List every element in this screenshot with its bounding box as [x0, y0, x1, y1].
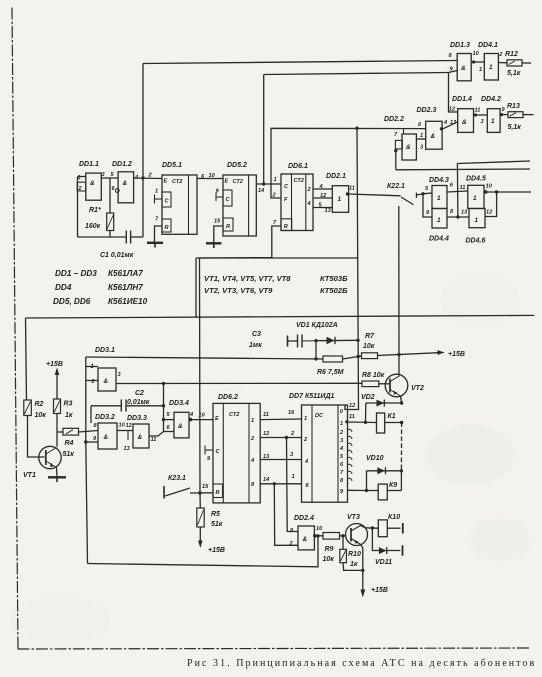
- wire +15V rail y358: [86, 353, 436, 359]
- svg-text:1: 1: [340, 421, 343, 427]
- wire R4 to DD3.2 input: [79, 431, 99, 433]
- wire C3 node to VD1 to x358 vertical: [316, 339, 358, 341]
- wire DD1.1 out to DD1.2 in: [101, 177, 118, 179]
- svg-text:+15В: +15В: [448, 351, 465, 358]
- svg-text:R3: R3: [64, 401, 73, 408]
- svg-text:1: 1: [489, 64, 493, 71]
- wire long vertical x200 reset net: [199, 262, 202, 508]
- wire DD5.2 C stub open tick: [216, 193, 223, 202]
- wire DD3.2 pin9 from x85.5 vertical: [86, 441, 98, 443]
- svg-text:&: &: [462, 119, 467, 126]
- svg-text:5,1к: 5,1к: [508, 124, 522, 131]
- svg-text:1: 1: [437, 195, 441, 202]
- wire DD5.1 out to DD5.2: [197, 178, 223, 180]
- gate DD2.4: [289, 515, 324, 550]
- node junction dot DD1.2 output at x143: [141, 176, 144, 179]
- wire DD1.1 input from left vertical: [78, 176, 86, 178]
- wire y128 net from DD6.1 F pin up and right to DD2.3: [271, 128, 426, 198]
- wire R2 to VT1 base: [28, 416, 45, 458]
- svg-text:1: 1: [437, 217, 441, 224]
- gate DD2.3: [417, 107, 443, 149]
- wire DD4.3 out to DD4.5 in: [447, 191, 468, 192]
- node dot pin8 wire with drop to DD2.4: [273, 482, 276, 485]
- wire DD3.1 output long line to R8: [116, 382, 362, 384]
- svg-text:DD1.3: DD1.3: [450, 42, 470, 49]
- svg-text:КТ502Б: КТ502Б: [320, 286, 348, 295]
- node dot pin2 wire with drop to DD2.4: [285, 436, 288, 439]
- wire bus2 drop at x263.7 to DD6.1 clock node: [263, 75, 265, 185]
- svg-text:DD4.3: DD4.3: [429, 177, 449, 184]
- svg-text:К9: К9: [389, 482, 397, 489]
- resistor R12 5,1к: [505, 51, 522, 77]
- svg-text:DD3.2: DD3.2: [95, 414, 115, 421]
- svg-text:1мк: 1мк: [249, 342, 262, 349]
- svg-text:R8 10к: R8 10к: [362, 372, 385, 379]
- resistor R10 1к: [340, 536, 363, 571]
- svg-text:13: 13: [263, 454, 270, 460]
- resistor R5 51к: [197, 508, 223, 528]
- svg-text:&: &: [138, 434, 143, 441]
- resistor R9 10к: [323, 533, 340, 564]
- svg-text:160к: 160к: [85, 223, 101, 230]
- relay K1: [377, 413, 396, 433]
- gate DD1.3: [449, 42, 480, 81]
- frame border bottom dash-dot: [18, 648, 530, 649]
- svg-text:DD3.1: DD3.1: [95, 347, 115, 354]
- svg-text:К561ЛН7: К561ЛН7: [108, 283, 143, 292]
- svg-text:Е: Е: [225, 179, 229, 185]
- svg-text:DD5.2: DD5.2: [227, 162, 247, 169]
- svg-text:1: 1: [491, 118, 495, 125]
- counter DD6.2: [213, 394, 260, 503]
- wire bus2 into DD1.3 pin 9: [449, 71, 458, 73]
- wire DD2.2 second input drop to y170 line: [395, 149, 397, 170]
- svg-text:К23.1: К23.1: [168, 475, 186, 482]
- svg-text:R10: R10: [348, 551, 361, 558]
- svg-text:R5: R5: [211, 511, 220, 518]
- svg-text:10: 10: [473, 51, 480, 57]
- wire top bus1: [143, 61, 457, 64]
- svg-text:13: 13: [461, 210, 468, 216]
- inverter DD4.1: [478, 42, 503, 80]
- label +15V right arrow: [436, 350, 465, 358]
- node junction dot DD5.2 carry at x263.7: [262, 182, 265, 185]
- svg-text:1: 1: [420, 133, 423, 139]
- svg-text:13: 13: [325, 208, 332, 214]
- svg-text:DD7 К511ИД1: DD7 К511ИД1: [289, 393, 335, 400]
- svg-text:12: 12: [320, 193, 327, 199]
- wire K1 right to x401.6: [385, 422, 402, 424]
- wire DD3.4 inputs: [164, 420, 175, 432]
- svg-text:F: F: [284, 197, 288, 203]
- svg-text:1: 1: [292, 474, 295, 480]
- gate DD2.1: [326, 173, 355, 212]
- relay K10: [378, 514, 403, 537]
- svg-text:12: 12: [449, 107, 456, 113]
- wire DD1.2 out to DD5.1: [134, 177, 162, 180]
- svg-text:12: 12: [126, 423, 133, 429]
- svg-text:VD1 КД102А: VD1 КД102А: [296, 322, 338, 329]
- svg-text:VD10: VD10: [366, 455, 384, 462]
- resistor R1 160к: [85, 178, 114, 237]
- gate DD2.2: [384, 116, 423, 160]
- counter DD5.2 (К561ИЕ10): [214, 162, 256, 236]
- wire DD7 out9 to K9 row: [348, 489, 367, 491]
- svg-text:51к: 51к: [211, 521, 223, 528]
- wire R3 to R4 and VT1 collector: [56, 414, 58, 447]
- wire feedback vertical x163.5: [163, 383, 165, 431]
- wire long left vertical x85.5 down to bottom wire: [86, 381, 88, 564]
- wire DD2.4 out to R9: [314, 535, 323, 537]
- resistor R2 10к: [24, 400, 46, 419]
- svg-text:R4: R4: [65, 440, 74, 447]
- diode VD2: [361, 394, 402, 407]
- svg-text:DD3.4: DD3.4: [169, 400, 189, 407]
- svg-text:К22.1: К22.1: [387, 183, 405, 190]
- wire VT3 emitter down to +15V: [361, 545, 363, 584]
- svg-text:0,01мк: 0,01мк: [127, 399, 150, 406]
- wire VT1 emitter to ground: [56, 468, 59, 478]
- svg-text:К561ИЕ10: К561ИЕ10: [108, 297, 148, 306]
- wire long vertical x358 from y128 line down to DD7 pin12: [345, 128, 359, 410]
- resistor R6 7,5М: [317, 356, 344, 376]
- svg-text:1: 1: [338, 196, 342, 203]
- gate DD3.4: [167, 400, 195, 438]
- wire bus2: [264, 73, 449, 75]
- svg-text:VT2: VT2: [411, 385, 424, 392]
- wire line y161 from x457 corner to right edge: [457, 161, 530, 164]
- wire DD5.2 carry pin14 to DD6.1 C: [256, 183, 281, 185]
- svg-text:DD4.1: DD4.1: [478, 42, 498, 49]
- svg-text:DD5, DD6: DD5, DD6: [53, 297, 91, 306]
- svg-text:VT2, VT3, VT6, VT9: VT2, VT3, VT6, VT9: [204, 286, 273, 295]
- resistor R3 1к: [54, 399, 73, 419]
- svg-text:КТ503Б: КТ503Б: [320, 274, 348, 283]
- svg-text:СТ2: СТ2: [229, 412, 240, 418]
- wire left drop from y317 to R2: [26, 318, 27, 400]
- diode VD1 КД102А: [296, 322, 338, 344]
- switch K22.1: [387, 183, 423, 217]
- svg-text:51к: 51к: [63, 451, 75, 458]
- svg-text:11: 11: [349, 186, 355, 192]
- DD7 unconnected output stub hooks: [348, 429, 353, 481]
- inverter DD4.3: [425, 177, 454, 209]
- label +15V up arrow over R3: [46, 361, 63, 399]
- wire DD2.2 out to DD2.3 pin3: [416, 138, 425, 140]
- svg-text:12: 12: [349, 403, 356, 409]
- svg-text:1: 1: [479, 67, 482, 73]
- svg-text:&: &: [178, 423, 183, 430]
- svg-text:DD2.3: DD2.3: [417, 107, 437, 114]
- svg-text:&: &: [431, 133, 436, 140]
- wire DD4.1 out to R12: [498, 62, 507, 64]
- svg-text:VT1, VT4, VT5, VT7, VT8: VT1, VT4, VT5, VT7, VT8: [204, 274, 291, 283]
- diode VD11: [372, 528, 402, 566]
- svg-text:1к: 1к: [65, 412, 73, 419]
- svg-text:R2: R2: [35, 401, 44, 408]
- svg-text:DD4.5: DD4.5: [466, 176, 486, 183]
- svg-text:+15В: +15В: [371, 587, 388, 594]
- wire DD5.1 C stub open tick: [155, 195, 163, 204]
- wire DD6.1 outputs to DD2.1 inputs: [313, 189, 332, 208]
- svg-text:10: 10: [316, 526, 323, 532]
- svg-text:VT3: VT3: [347, 514, 360, 521]
- switch K23.1: [164, 475, 213, 499]
- wire VD10 left node down to K9 wire: [366, 471, 368, 491]
- svg-text:1: 1: [251, 418, 254, 424]
- wire R13 to right edge: [523, 114, 534, 116]
- wire DD2.1 output to K22.1: [349, 194, 401, 196]
- gate DD3.3: [127, 415, 156, 448]
- wire bottom long wire to R9 node: [88, 536, 319, 567]
- wire DD1.4 out to DD4.2: [474, 114, 488, 116]
- svg-text:DC: DC: [315, 413, 324, 419]
- svg-text:VT1: VT1: [23, 472, 36, 479]
- svg-text:VD11: VD11: [375, 559, 392, 566]
- inverter DD4.5: [460, 176, 493, 209]
- transistor VT3: [346, 514, 368, 546]
- svg-text:1: 1: [473, 195, 477, 202]
- transistor VT1: [23, 446, 61, 479]
- capacitor C2 0,01мк: [91, 390, 164, 423]
- svg-text:VD2: VD2: [361, 394, 375, 401]
- ground for DD5.2: [206, 243, 222, 248]
- svg-text:DD4.6: DD4.6: [466, 238, 486, 245]
- wire C3/VD1 node drop to R6 rail: [315, 341, 317, 359]
- svg-text:&: &: [90, 180, 95, 187]
- gate DD1.2 (К561ЛА7): [111, 161, 140, 203]
- svg-text:10к: 10к: [363, 343, 375, 350]
- svg-text:&: &: [104, 378, 109, 385]
- wire DD3.4 out to DD6.2 E: [189, 419, 213, 421]
- svg-text:К1: К1: [388, 413, 396, 420]
- svg-text:DD5.1: DD5.1: [162, 162, 182, 169]
- svg-text:11: 11: [349, 414, 355, 420]
- wire DD6.2 outputs to DD7 inputs: [260, 419, 301, 484]
- svg-text:15: 15: [202, 484, 209, 490]
- svg-text:&: &: [461, 65, 466, 72]
- svg-text:С3: С3: [252, 331, 261, 338]
- wire VT2 emitter to VD2 node: [401, 396, 402, 403]
- wire DD2.3 out to DD1.4 pin13: [443, 122, 458, 129]
- wire long horizontal y317: [26, 315, 535, 318]
- gate DD1.4: [443, 96, 480, 132]
- wire DD5.1 R to ground: [155, 226, 163, 243]
- svg-text:R: R: [165, 225, 169, 231]
- svg-text:DD1.1: DD1.1: [79, 161, 99, 168]
- svg-text:+15В: +15В: [208, 547, 225, 554]
- svg-text:1: 1: [475, 217, 479, 224]
- svg-text:&: &: [104, 434, 109, 441]
- wire DD3.3 out to x163.5 node: [149, 432, 164, 437]
- resistor R8 10к: [362, 372, 385, 387]
- svg-text:СТ2: СТ2: [294, 178, 305, 184]
- svg-text:12: 12: [486, 210, 493, 216]
- svg-text:R9: R9: [325, 546, 334, 553]
- wire dashed link x401.6 down to VD10 row: [400, 423, 402, 472]
- wire DD7 out1 to K1 row: [348, 421, 377, 424]
- svg-text:Рис 31. Принципиальная схема А: Рис 31. Принципиальная схема АТС на деся…: [187, 658, 536, 669]
- wire K22.1 common vertical x399 down to +15V rail and VT2: [398, 217, 400, 376]
- svg-text:К10: К10: [388, 514, 400, 521]
- diode VD10: [366, 455, 401, 474]
- frame border left dash-dot: [12, 8, 18, 648]
- wire DD6.1 R pin7 loop down-left to x199 vertical: [200, 226, 282, 262]
- svg-text:15: 15: [214, 219, 221, 225]
- capacitor C1 0,01мк: [100, 231, 143, 260]
- svg-text:СТ2: СТ2: [172, 179, 183, 185]
- svg-text:DD1 – DD3: DD1 – DD3: [55, 269, 97, 278]
- svg-text:DD2.2: DD2.2: [384, 116, 404, 123]
- label +15V down arrow under R5: [198, 527, 225, 554]
- svg-text:11: 11: [151, 437, 157, 443]
- svg-text:1к: 1к: [350, 561, 358, 568]
- svg-text:R7: R7: [365, 333, 375, 340]
- wire VT3 collector to K10: [365, 527, 378, 529]
- gate DD3.2: [93, 414, 117, 449]
- svg-text:1: 1: [155, 189, 158, 195]
- svg-text:С1 0,01мк: С1 0,01мк: [100, 252, 134, 259]
- label +15V down arrow under VT3: [360, 583, 388, 598]
- svg-text:R: R: [284, 224, 288, 230]
- svg-text:DD1.4: DD1.4: [452, 96, 472, 103]
- svg-text:10: 10: [486, 184, 493, 190]
- wire line y170 to right edge: [396, 168, 530, 171]
- svg-text:&: &: [303, 536, 308, 543]
- counter DD6.1 (К561ИЕ10): [272, 163, 314, 231]
- svg-text:11: 11: [475, 108, 481, 114]
- wire bottom feedback y237: [78, 236, 126, 238]
- svg-text:DD4: DD4: [55, 283, 72, 292]
- wire DD4.5 out line to right edge: [484, 191, 531, 193]
- wire vertical x448.5 bus2 to DD1.4 pin12: [449, 73, 458, 113]
- svg-text:5,1к: 5,1к: [507, 70, 521, 77]
- svg-text:16: 16: [288, 410, 295, 416]
- wire VD2 node down to out1 wire: [365, 403, 367, 422]
- svg-text:DD4.4: DD4.4: [429, 236, 449, 243]
- decoder DD7 К511ИД1: [289, 393, 348, 502]
- relay K9: [367, 471, 402, 500]
- parts list text DD1-DD6: [53, 269, 148, 306]
- svg-text:+15В: +15В: [46, 361, 63, 368]
- svg-text:1: 1: [304, 416, 307, 422]
- svg-text:10: 10: [209, 173, 216, 179]
- svg-text:&: &: [406, 144, 411, 151]
- resistor R13 5,1к: [507, 103, 523, 131]
- svg-text:DD2.1: DD2.1: [326, 173, 346, 180]
- gate DD3.1: [91, 347, 122, 391]
- wire DD4.2 out to R13: [500, 114, 508, 116]
- ground for VT1: [48, 477, 66, 482]
- wire R9 to VT3 base: [340, 535, 346, 537]
- resistor R4 51к: [63, 428, 79, 458]
- wire DD4.4 out to DD4.6 in with x458 tap: [447, 216, 469, 218]
- wire DD3.2 out to DD3.3: [117, 430, 133, 432]
- svg-text:DD6.1: DD6.1: [288, 163, 308, 170]
- wire vertical x457.4 down to lower gate row: [456, 164, 459, 218]
- svg-text:10к: 10к: [323, 556, 335, 563]
- wire left feedback vertical x77.5: [77, 177, 79, 238]
- svg-text:10к: 10к: [35, 412, 47, 419]
- transistor VT2: [379, 374, 424, 397]
- svg-text:СТ2: СТ2: [233, 179, 244, 185]
- svg-text:R: R: [216, 490, 220, 496]
- transistor types note box: [196, 258, 358, 317]
- svg-text:DD2.4: DD2.4: [294, 515, 314, 522]
- wire DD6.2 C stub open tick: [205, 446, 213, 455]
- wire K22.1 node to DD4.3/DD4.4 inputs: [423, 193, 432, 217]
- resistor R7 10к: [362, 333, 378, 359]
- svg-text:14: 14: [263, 477, 270, 483]
- wire DD3.1 inputs from +15V rail end: [86, 357, 98, 381]
- svg-text:14: 14: [258, 188, 265, 194]
- wire bus1 left drop to DD1.2 output node: [142, 64, 144, 238]
- svg-text:&: &: [123, 180, 128, 187]
- svg-text:11: 11: [460, 185, 466, 191]
- svg-text:Е: Е: [215, 416, 219, 422]
- inverter DD4.6: [461, 209, 493, 245]
- svg-text:К561ЛА7: К561ЛА7: [108, 269, 143, 278]
- wire DD5.2 R to ground: [214, 226, 223, 243]
- svg-text:R12: R12: [505, 51, 518, 58]
- capacitor C3 1мк with line terminal: [249, 331, 316, 349]
- wire R12 to right edge: [522, 62, 531, 64]
- wire DD4.6 out loop up to output net: [485, 192, 497, 217]
- svg-text:R1*: R1*: [89, 207, 101, 214]
- svg-text:11: 11: [263, 412, 269, 418]
- svg-text:DD3.3: DD3.3: [127, 415, 147, 422]
- svg-text:DD4.2: DD4.2: [481, 96, 501, 103]
- gate DD1.1 (К561ЛА7): [77, 161, 105, 200]
- inverter DD4.2: [481, 96, 506, 132]
- svg-text:С2: С2: [135, 390, 144, 397]
- svg-text:Е: Е: [164, 179, 168, 185]
- svg-text:12: 12: [263, 431, 270, 437]
- svg-text:DD6.2: DD6.2: [218, 394, 238, 401]
- ground for DD5.1: [147, 243, 163, 248]
- svg-text:R13: R13: [507, 103, 520, 110]
- svg-text:R6 7,5М: R6 7,5М: [317, 369, 344, 376]
- counter DD5.1 (К561ИЕ10): [148, 162, 198, 234]
- svg-text:13: 13: [124, 446, 131, 452]
- wire DD1.3 out to DD4.1: [471, 61, 484, 63]
- svg-text:DD1.2: DD1.2: [112, 161, 132, 168]
- svg-text:1: 1: [274, 177, 277, 183]
- inverter DD4.4: [426, 209, 454, 243]
- svg-text:R: R: [226, 224, 230, 230]
